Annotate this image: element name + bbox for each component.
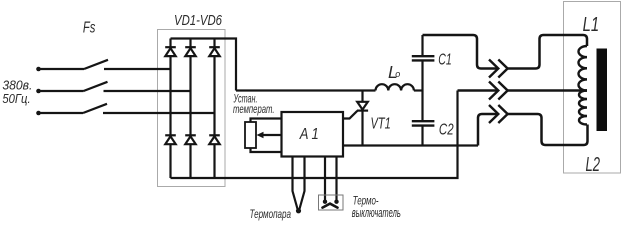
connector arrows pair 3	[489, 105, 508, 123]
thermal switch box	[319, 195, 344, 210]
wire: thermocouple lead 2	[299, 157, 304, 211]
diode VD6	[209, 135, 220, 144]
node: input terminal phase A	[36, 67, 41, 72]
induction coil L2	[579, 91, 587, 125]
inductor Lp	[376, 84, 414, 90]
svg-text:Fs: Fs	[83, 19, 96, 36]
wire: bridge column 3	[213, 39, 215, 179]
wire: C2 to return line	[421, 126, 423, 146]
workpiece bar	[597, 49, 608, 132]
capacitor C2	[412, 121, 435, 125]
thermocouple junction dot	[296, 208, 301, 213]
wire: connector 1 to L1 top	[508, 35, 587, 69]
svg-text:380в.: 380в.	[2, 77, 32, 92]
svg-text:Термопара: Термопара	[250, 207, 292, 221]
wire: connector 2 to coil tap	[508, 89, 587, 91]
svg-text:выключатель: выключатель	[352, 205, 401, 220]
svg-text:VT1: VT1	[371, 116, 391, 133]
wire: bridge column 1	[169, 39, 171, 179]
svg-text:L1: L1	[583, 14, 600, 36]
wire: VT1 gate from A1	[343, 111, 357, 119]
node: input terminal phase C	[36, 111, 41, 116]
svg-text:температ.: температ.	[233, 104, 275, 116]
load unit box	[564, 2, 621, 174]
wire: thermal switch lead 1	[324, 157, 326, 202]
wire: rectifier minus bus	[171, 91, 458, 179]
svg-text:L2: L2	[586, 154, 601, 176]
diode VD4	[165, 135, 176, 144]
switch Fs pole 3	[39, 104, 108, 113]
wire: connector 3 to L2 bottom	[508, 114, 588, 145]
node: input terminal phase B	[36, 89, 41, 94]
wire: pot bottom lead	[251, 148, 282, 152]
rectifier unit box	[158, 30, 226, 187]
wire: thermocouple lead 1	[293, 157, 298, 211]
wire: pot wiper arrow	[257, 132, 282, 138]
wire: thermal switch lead 2	[335, 157, 337, 202]
wire: capacitor column middle	[421, 60, 423, 120]
wire: return line A1 to connector	[343, 144, 478, 146]
connector arrows pair 2	[489, 82, 508, 100]
svg-text:50Гц.: 50Гц.	[2, 92, 30, 106]
wire: rectifier plus bus	[171, 39, 237, 91]
svg-text:Lo: Lo	[388, 62, 400, 82]
wire row3 to bridge	[103, 112, 215, 114]
capacitor C1	[412, 56, 435, 60]
svg-text:VD1-VD6: VD1-VD6	[174, 12, 222, 29]
svg-text:C2: C2	[439, 122, 454, 139]
wire row1 to bridge	[104, 68, 171, 70]
wire: DC link to VT1 and Lp	[236, 89, 376, 91]
connector arrows pair 1	[489, 60, 508, 78]
wire: C1 top to connector 1	[423, 35, 498, 69]
diode VD1	[165, 47, 176, 56]
induction coil L1	[578, 46, 587, 91]
thyristor VT1	[357, 91, 368, 146]
svg-text:A 1: A 1	[299, 126, 319, 143]
control unit A1 box	[282, 112, 344, 157]
thermal switch bimetal element	[323, 204, 338, 208]
wire: middle connector feed	[458, 89, 498, 91]
diode VD5	[185, 135, 196, 144]
wire: Lp to capacitor column	[414, 89, 423, 91]
diode VD3	[209, 47, 220, 56]
switch Fs pole 1	[39, 60, 109, 69]
switch Fs pole 2	[39, 82, 108, 91]
wire: capacitor column upper	[421, 35, 423, 56]
diode VD2	[185, 47, 196, 56]
wire: pot top lead	[251, 119, 282, 123]
wire: bridge column 2	[189, 39, 191, 179]
wire row2 to bridge	[104, 90, 191, 92]
potentiometer body	[245, 122, 256, 148]
wire: return to bottom connector	[478, 114, 498, 146]
thermal switch contact dots	[323, 200, 339, 204]
svg-text:C1: C1	[438, 52, 452, 69]
